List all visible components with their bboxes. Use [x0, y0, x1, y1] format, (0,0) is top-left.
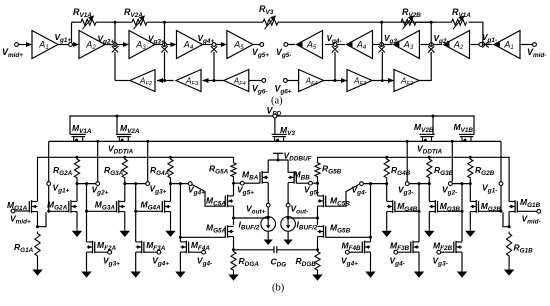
- junction: [316, 217, 319, 220]
- op-amp A1 right: [494, 31, 520, 59]
- wire node segment Vg4A: [171, 183, 189, 185]
- wire Vg2- up: [430, 22, 432, 46]
- ground MG2B: [469, 228, 471, 231]
- junction: [461, 210, 464, 213]
- ground MF4B: [370, 269, 372, 272]
- wire MG5A source: [233, 237, 235, 250]
- wire MF4B source: [370, 252, 372, 269]
- transistor MBB: [293, 171, 295, 184]
- wire: [69, 133, 72, 135]
- terminal Vg5-: [284, 43, 288, 47]
- wire node segment Vg3B: [409, 183, 429, 185]
- resistor RDGA: [231, 250, 236, 272]
- wire: [508, 258, 510, 267]
- junction: [114, 21, 117, 24]
- wire A2r out: [431, 44, 442, 46]
- wire Vmid+ gate: [15, 210, 29, 212]
- junction: [418, 182, 421, 185]
- wire to A4: [166, 44, 175, 46]
- junction MV2B gate: [432, 115, 435, 118]
- wire gate terminal: [144, 251, 157, 253]
- transistor MBA: [261, 171, 263, 184]
- wire riser Vg3+: [147, 141, 149, 181]
- current source IBUF/2 right: [281, 217, 296, 232]
- variable resistor RV2A: [132, 19, 147, 25]
- wire MG5B source: [317, 237, 319, 250]
- transistor MG5B: [323, 225, 325, 238]
- wire: [234, 182, 241, 184]
- terminal Vg1+: [47, 182, 51, 186]
- transistor MF4A: [185, 241, 187, 254]
- wire MG4B drain: [386, 184, 388, 202]
- wire gate terminal: [189, 251, 202, 253]
- wire to A3: [117, 44, 128, 46]
- wire Vg3+ up: [164, 22, 166, 46]
- terminal Vg4B node: [360, 182, 364, 186]
- junction: [369, 182, 372, 185]
- transistor MG5A: [227, 225, 229, 238]
- wire MF2A source: [86, 252, 88, 269]
- wire MG3B source: [428, 212, 430, 229]
- terminal Vg5+: [240, 181, 244, 185]
- junction x Vg2+: [112, 46, 118, 52]
- terminal Vg4A node: [188, 182, 192, 186]
- ground MF3B: [418, 269, 420, 272]
- wire AF2 to Vg2+: [114, 52, 116, 81]
- feedback amp AF2 left: [130, 70, 155, 92]
- wire RG3A bottom: [124, 180, 126, 184]
- transistor MC5A: [227, 195, 229, 208]
- transistor MG1A: [31, 200, 33, 213]
- resistor RG4B: [384, 157, 389, 179]
- wire VPD net: [70, 116, 474, 134]
- terminal Vmid- b: [537, 209, 541, 213]
- wire top rail a: [72, 21, 82, 23]
- svg-text:(a): (a): [271, 96, 283, 107]
- junction: [316, 182, 319, 185]
- op-amp A1: [32, 31, 58, 59]
- junction rail R_G2A: [76, 156, 79, 159]
- junction: [163, 79, 166, 82]
- wire VDDBUF split: [268, 159, 288, 161]
- wire Vg4- to MC5B gate: [326, 185, 359, 207]
- wire: [473, 133, 475, 135]
- wire CDG right: [277, 249, 317, 251]
- wire MG2B drain: [469, 184, 471, 202]
- junction Vg3+ riser: [146, 140, 149, 143]
- op-amp A2: [79, 31, 105, 59]
- junction rail R_G4B: [385, 156, 388, 159]
- junction x Vg4+: [211, 46, 217, 52]
- wire signal ladder: [49, 140, 501, 142]
- resistor RG2A: [74, 157, 79, 179]
- arrow into AF3r: [341, 78, 347, 83]
- ground MF3A: [135, 269, 137, 272]
- wire A4r out: [335, 44, 345, 46]
- wire riser Vg2+: [97, 141, 99, 181]
- wire Vg4+ to MC5A gate: [192, 185, 225, 207]
- wire to A3r: [421, 44, 430, 46]
- terminal Vg2A node: [96, 182, 100, 186]
- ground RDGB: [317, 272, 319, 275]
- resistor RG3A: [122, 157, 127, 179]
- ground IBUF left: [267, 238, 269, 240]
- transistor MF2B: [455, 241, 457, 254]
- wire gate terminal: [95, 251, 108, 253]
- terminal Vg2B node: [449, 182, 453, 186]
- wire Vg4+ down: [213, 52, 215, 81]
- wire net Vg2A down: [86, 184, 88, 242]
- wire gate lead MG3B: [438, 210, 463, 212]
- node Vg1-: [479, 43, 483, 47]
- junction: [232, 248, 235, 251]
- wire: [147, 21, 263, 23]
- wire gate lead MG3A: [87, 210, 117, 212]
- ground MG3A: [124, 228, 126, 231]
- junction rail R_G3B: [428, 156, 431, 159]
- wire net Vg4A down: [179, 184, 181, 242]
- wire top rail b: [278, 21, 431, 23]
- feedback amp AF2 right: [394, 70, 419, 92]
- wire Vg3- down: [381, 52, 383, 81]
- wire MBB gate to Vg5-: [296, 182, 308, 184]
- transistor MF4B: [364, 241, 366, 254]
- wire A1r out: [483, 44, 493, 46]
- junction: [169, 182, 172, 185]
- ground MG4A: [170, 228, 172, 231]
- junction Vg2+ riser: [96, 140, 99, 143]
- wire gate MV2B: [432, 116, 434, 134]
- wire MF3B source: [418, 252, 420, 269]
- wire MG4B source: [386, 212, 388, 229]
- variable resistor RV1A: [81, 19, 96, 25]
- wire to Vout-: [290, 217, 317, 219]
- ground MF2B: [461, 269, 463, 272]
- feedback amp AF3 right: [347, 70, 372, 92]
- wire source to Vg1+: [38, 212, 47, 226]
- transistor MV1B: [462, 137, 471, 142]
- terminal Vg3B node: [405, 182, 409, 186]
- arrow into AF2: [157, 78, 163, 83]
- feedback amp AF4 right: [299, 70, 324, 92]
- variable resistor RV2B: [401, 19, 416, 25]
- wire node segment Vg2A: [77, 183, 96, 185]
- wire MG3B drain: [428, 184, 430, 202]
- transistor MG2B: [475, 200, 477, 213]
- junction: [461, 182, 464, 185]
- wire to A2r: [471, 44, 480, 46]
- wire Vg3+ down: [164, 52, 166, 81]
- wire MG3A source: [124, 212, 126, 229]
- node Vg4+: [212, 43, 216, 47]
- capacitor CDG: [274, 246, 277, 253]
- resistor RG1A: [35, 232, 40, 259]
- wire Vg1+ down: [48, 186, 50, 212]
- wire net Vg3B down: [418, 184, 420, 242]
- op-amp A3 right: [393, 31, 419, 59]
- wire MC5B source to MG5B drain: [317, 206, 319, 225]
- wire RG4B bottom: [386, 180, 388, 184]
- wire AF3 to AF2: [157, 80, 174, 82]
- transistor MC5B: [323, 195, 325, 208]
- junction: [428, 182, 431, 185]
- node Vg1+: [69, 43, 73, 47]
- arrow into AF2r: [388, 78, 394, 83]
- terminal Vg1-: [499, 182, 503, 186]
- wire MF2B source: [461, 252, 463, 269]
- junction x Vg4-: [332, 46, 338, 52]
- junction: [85, 182, 88, 185]
- transistor MG2A: [70, 200, 72, 213]
- wire AF2r to Vg2-: [419, 52, 431, 81]
- wire down to Vg1-: [500, 141, 502, 181]
- wire: [433, 133, 435, 135]
- wire to A2: [72, 44, 77, 46]
- wire VDDTIA rail left: [38, 157, 234, 201]
- junction: [385, 182, 388, 185]
- wire Vg2+ up: [114, 22, 116, 46]
- wire: [115, 133, 118, 135]
- feedback amp AF3 left: [176, 70, 201, 92]
- op-amp A5 right: [297, 31, 323, 59]
- junction: [232, 217, 235, 220]
- feedback amp AF4 left: [224, 70, 249, 92]
- junction MV2A gate: [116, 115, 119, 118]
- junction x Vg1-: [482, 41, 488, 47]
- wire to A5: [216, 44, 226, 46]
- junction: [47, 210, 50, 213]
- wire Vmid- to A1r: [520, 44, 533, 46]
- junction: [76, 182, 79, 185]
- transistor MF3A: [141, 241, 143, 254]
- wire: [37, 258, 39, 267]
- wire Vg4+ to MG5A gate: [180, 236, 225, 238]
- wire A3r out: [382, 44, 392, 46]
- wire Vg1+ up to RV1A: [71, 22, 73, 42]
- terminal VPD: [273, 114, 277, 118]
- wire VDDTIA rail right: [318, 157, 510, 201]
- wire MBA source up: [267, 160, 269, 173]
- wire Vg3- up: [381, 22, 383, 46]
- wire RG5A bottom: [233, 178, 235, 196]
- junction rail R_G4A: [169, 156, 172, 159]
- op-amp A4: [177, 31, 203, 59]
- junction x Vg2-: [428, 46, 434, 52]
- terminal Vg3A node: [146, 182, 150, 186]
- wire: [287, 231, 289, 238]
- transistor MG3A: [118, 200, 120, 213]
- wire AF3r out: [372, 80, 394, 82]
- resistor RG1B: [507, 232, 512, 259]
- wire RG2A bottom: [76, 180, 78, 184]
- junction x Vg3+: [161, 46, 167, 52]
- junction rail R_G3A: [123, 156, 126, 159]
- wire MC5A source to MG5A drain: [233, 206, 235, 225]
- wire MF3A source: [135, 252, 137, 269]
- wire A1 out: [58, 44, 69, 46]
- junction: [134, 210, 137, 213]
- junction: [287, 217, 290, 220]
- wire source to Vg1-: [503, 212, 509, 226]
- terminal Vout-: [286, 203, 290, 207]
- wire MBA gate to Vg5+: [244, 182, 260, 184]
- wire gate lead MG4B: [395, 210, 419, 212]
- wire A4 out: [203, 44, 215, 46]
- op-amp A3: [129, 31, 155, 59]
- wire MG4A drain: [170, 184, 172, 202]
- wire Vmid+ to A1: [18, 44, 30, 46]
- junction: [500, 210, 503, 213]
- wire CDG left: [234, 249, 274, 251]
- junction: [381, 79, 384, 82]
- transistor MF3B: [412, 241, 414, 254]
- wire: [267, 207, 269, 217]
- wire Vmid- gate: [517, 210, 537, 212]
- wire: [416, 21, 452, 23]
- wire: [267, 231, 269, 238]
- junction: [380, 21, 383, 24]
- junction: [267, 217, 270, 220]
- wire net Vg4B down: [370, 184, 372, 242]
- power VDDBUF: [273, 152, 283, 154]
- terminal Vmid+ b: [11, 209, 15, 213]
- terminal Vg6-: [262, 79, 266, 83]
- transistor MV3: [275, 137, 284, 142]
- ground IBUF right: [287, 238, 289, 240]
- wire to A5r: [325, 44, 333, 46]
- op-amp A5: [227, 31, 253, 59]
- wire MBB source up: [287, 160, 289, 173]
- wire RG4A bottom: [170, 180, 172, 184]
- resistor RG4A: [168, 157, 173, 179]
- wire MBA drain to Vout+: [267, 183, 269, 204]
- wire to Vg1-: [469, 22, 483, 43]
- junction rail R_G2B: [469, 156, 472, 159]
- arrow into AF3: [203, 78, 209, 83]
- node Vg3+: [163, 43, 167, 47]
- transistor MV1A: [74, 137, 83, 142]
- wire AF2 out: [115, 80, 130, 82]
- terminal Vg5+: [260, 43, 264, 47]
- wire AF4 to AF3: [203, 80, 224, 82]
- wire AF4 input: [249, 80, 262, 82]
- junction: [179, 236, 182, 239]
- resistor RG5B: [315, 162, 320, 179]
- wire Vg6+ to AF4r: [287, 80, 298, 82]
- ground MF4A: [179, 269, 181, 272]
- wire MG1B source: [508, 212, 510, 227]
- terminal Vg5-: [309, 181, 313, 185]
- transistor MG3B: [434, 200, 436, 213]
- op-amp A2 right: [444, 31, 470, 59]
- junction: [508, 225, 511, 228]
- wire gate lead MG4A: [136, 210, 163, 212]
- junction: [134, 182, 137, 185]
- op-amp A4 right: [347, 31, 373, 59]
- wire MG2A drain: [76, 184, 78, 202]
- junction: [163, 21, 166, 24]
- terminal Vmid+: [15, 43, 19, 47]
- wire net Vg2B down: [461, 184, 463, 242]
- resistor RDGB: [315, 250, 320, 272]
- wire node segment Vg4B: [363, 183, 386, 185]
- wire: [287, 207, 289, 217]
- node Vg3-: [380, 43, 384, 47]
- wire A5r out: [288, 44, 295, 46]
- current source IBUF/2 left: [261, 217, 276, 232]
- wire RG2B bottom: [469, 180, 471, 184]
- wire A5 out: [253, 44, 260, 46]
- ground RDGA: [233, 272, 235, 275]
- ground MG4B: [386, 228, 388, 231]
- ground RG1B: [508, 267, 510, 270]
- wire net Vg3A down: [135, 184, 137, 242]
- resistor RG2B: [468, 157, 473, 179]
- wire A3 out: [155, 44, 165, 46]
- junction Vg3- riser: [406, 140, 409, 143]
- junction: [85, 210, 88, 213]
- wire MG1A source: [37, 212, 39, 227]
- node Vg4-: [333, 43, 337, 47]
- wire Vg4- down: [334, 52, 336, 81]
- junction: [334, 79, 337, 82]
- wire down to Vg1+: [48, 141, 50, 181]
- ground MG2A: [76, 228, 78, 231]
- wire node segment Vg3A: [125, 183, 146, 185]
- wire AF4r out: [324, 80, 347, 82]
- wire riser Vg2-: [451, 141, 453, 181]
- junction: [232, 182, 235, 185]
- variable resistor RV1B: [452, 19, 467, 25]
- transistor MV2A: [119, 137, 128, 142]
- wire VPD to MV3 gate: [274, 118, 276, 134]
- wire MG2B source: [469, 212, 471, 229]
- ground RG1A: [37, 267, 39, 270]
- wire MG3A drain: [124, 184, 126, 202]
- wire VDDBUF stem: [277, 153, 279, 160]
- node Vg2-: [429, 43, 433, 47]
- variable resistor RV3: [263, 19, 278, 25]
- wire riser Vg3-: [406, 141, 408, 181]
- node Vg2+: [113, 43, 117, 47]
- wire to Vout+: [234, 217, 269, 219]
- wire MG2A source: [76, 212, 78, 229]
- wire MG4A source: [170, 212, 172, 229]
- wire Vg4- to MG5B gate: [326, 236, 371, 238]
- transistor MG1B: [514, 200, 516, 213]
- resistor RG3B: [427, 157, 432, 179]
- junction: [316, 248, 319, 251]
- wire: [312, 182, 317, 184]
- transistor MV2B: [423, 137, 432, 142]
- junction: [213, 79, 216, 82]
- transistor MG4A: [164, 200, 166, 213]
- wire MBB drain to Vout-: [287, 183, 289, 204]
- transistor MG4B: [392, 200, 394, 213]
- wire: [96, 21, 132, 23]
- transistor MF2A: [92, 241, 94, 254]
- junction: [36, 225, 39, 228]
- junction Vg2- riser: [451, 140, 454, 143]
- wire gate terminal: [398, 251, 411, 253]
- junction: [369, 236, 372, 239]
- junction: [123, 182, 126, 185]
- ground MG3B: [428, 228, 430, 231]
- wire MF4A source: [179, 252, 181, 269]
- wire Vg1- down: [500, 186, 502, 212]
- terminal Vg6+: [283, 79, 287, 83]
- junction: [469, 182, 472, 185]
